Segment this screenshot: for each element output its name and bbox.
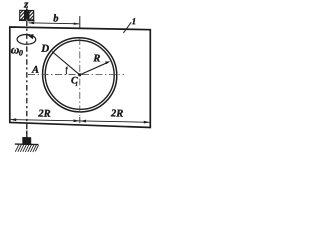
svg-text:z: z [23,0,29,11]
svg-text:D: D [40,43,49,55]
svg-text:2R: 2R [37,109,50,120]
svg-text:2R: 2R [110,108,123,119]
svg-text:R: R [92,53,100,64]
svg-text:A: A [31,65,39,76]
svg-text:b: b [53,13,58,24]
svg-text:1: 1 [75,82,78,88]
svg-text:1: 1 [132,16,136,26]
svg-text:0: 0 [19,48,23,57]
